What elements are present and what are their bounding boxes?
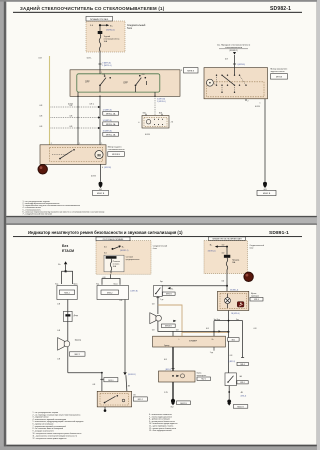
page 1 bottom dark edge bbox=[6, 216, 317, 217]
svg-text:Кор.: Кор. bbox=[96, 283, 100, 285]
svg-text:стеклоочистителя: стеклоочистителя bbox=[108, 149, 125, 151]
node B+ in ignition box bbox=[208, 244, 228, 254]
title underline bbox=[13, 236, 302, 237]
svg-text:1 (М97-В): 1 (М97-В) bbox=[130, 290, 138, 292]
switch contacts right (washer) bbox=[123, 74, 146, 92]
left dark shadow line bbox=[0, 0, 4, 450]
right grey strip bbox=[317, 0, 320, 450]
page 1 white sheet bbox=[6, 2, 317, 216]
svg-text:М970-L 2А: М970-L 2А bbox=[106, 133, 116, 136]
drop to connector dead end bbox=[228, 321, 257, 366]
svg-text:М52: М52 bbox=[232, 339, 235, 341]
switch contacts left (wiper) bbox=[85, 74, 111, 92]
svg-text:SD891-1: SD891-1 bbox=[269, 230, 289, 236]
seat belt switch box bbox=[225, 373, 248, 386]
svg-text:ПОСТОЯННОЕ ПИТАНИЕ: ПОСТОЯННОЕ ПИТАНИЕ bbox=[103, 238, 124, 241]
svg-text:Зуммер: Зуммер bbox=[164, 345, 170, 347]
ground G02 bbox=[93, 182, 109, 196]
wiper motor park switch bbox=[52, 149, 75, 159]
dashed wire row 3 bbox=[40, 126, 119, 136]
rear washer motor box bbox=[204, 68, 268, 99]
svg-text:(SD982-2): (SD982-2) bbox=[229, 50, 238, 52]
svg-text:13 - блок предохранителей: 13 - блок предохранителей bbox=[149, 429, 172, 432]
svg-text:В+: В+ bbox=[171, 288, 173, 290]
title underline bbox=[13, 12, 302, 13]
driver door switch box bbox=[97, 391, 147, 407]
svg-text:0.8: 0.8 bbox=[93, 384, 96, 386]
svg-text:12 - контрольная лампа ремня в: 12 - контрольная лампа ремня водителя bbox=[33, 438, 67, 440]
grommet (red) left bbox=[38, 165, 47, 174]
svg-text:2 (М970-L): 2 (М970-L) bbox=[157, 101, 166, 103]
node B+ in constant power box bbox=[104, 245, 129, 254]
svg-text:М97В S: М97В S bbox=[187, 70, 194, 72]
svg-text:Лампа: Лампа bbox=[197, 373, 202, 375]
switch bottom pins bbox=[68, 92, 166, 106]
wire meter to belt switch bbox=[229, 311, 240, 373]
svg-text:2: 2 bbox=[51, 143, 52, 145]
buzzer (horn symbol) bbox=[58, 338, 85, 357]
wiper motor pins bbox=[51, 143, 103, 145]
svg-text:0.8 В: 0.8 В bbox=[91, 175, 96, 177]
wire chime to buzzer rail bbox=[152, 321, 230, 336]
junction block caption right 2 bbox=[250, 244, 264, 249]
wire fuse to wiper switch bbox=[87, 52, 112, 70]
wire M33-1 to diode bbox=[57, 300, 68, 312]
wire from fusible link splits bbox=[96, 274, 120, 285]
washer pump motor bbox=[206, 79, 213, 86]
svg-text:М31-3: М31-3 bbox=[240, 364, 244, 366]
svg-text:Проз.: Проз. bbox=[73, 283, 78, 285]
chime (second horn) bbox=[150, 313, 177, 328]
junction block dashed box (ignition feed) bbox=[86, 16, 125, 52]
svg-text:ПИТАНИЕ ПРИ ЗАЖ.: ПИТАНИЕ ПРИ ЗАЖ. bbox=[90, 18, 109, 21]
svg-text:незатянутого: незатянутого bbox=[197, 375, 207, 377]
wire switch pin to wiper motor (mid) bbox=[99, 96, 101, 145]
svg-text:1 дх: 1 дх bbox=[160, 299, 163, 301]
svg-text:1 (М970S): 1 (М970S) bbox=[237, 64, 246, 66]
connector box M33-2 bbox=[97, 286, 138, 300]
svg-text:2В (М31-4): 2В (М31-4) bbox=[231, 313, 240, 315]
svg-text:OFF: OFF bbox=[123, 82, 128, 84]
svg-text:М970S В: М970S В bbox=[112, 154, 121, 156]
rail meter split bbox=[214, 319, 243, 322]
fusible link box 30A bbox=[104, 255, 139, 273]
svg-text:(SD982-2): (SD982-2) bbox=[106, 30, 115, 32]
fuse F (rear wiper 10A) bbox=[98, 26, 120, 52]
wire buzzer to door switch bbox=[57, 347, 118, 392]
constant power dashed box bbox=[96, 237, 151, 274]
svg-text:М31 4: М31 4 bbox=[254, 299, 259, 301]
svg-text:(М52-2): (М52-2) bbox=[165, 369, 171, 371]
svg-text:ЗУММЕР: ЗУММЕР bbox=[189, 341, 198, 343]
svg-text:0.8 В: 0.8 В bbox=[145, 134, 150, 136]
svg-text:0.8: 0.8 bbox=[230, 355, 233, 357]
washer ground wire bbox=[246, 99, 265, 182]
svg-text:1В (М31-4): 1В (М31-4) bbox=[230, 290, 239, 292]
svg-text:(SD891-2): (SD891-2) bbox=[128, 374, 136, 376]
svg-text:1: 1 bbox=[101, 72, 102, 74]
washer valve contacts bbox=[213, 68, 247, 93]
ground MG52 bbox=[164, 392, 190, 408]
svg-text:М33-1: М33-1 bbox=[64, 292, 69, 294]
washer motor caption bbox=[271, 69, 288, 80]
belt lamp box bbox=[159, 371, 211, 382]
svg-text:SD982-1: SD982-1 bbox=[270, 6, 291, 12]
node B+ inside junction block bbox=[90, 24, 115, 32]
svg-text:(М31-3): (М31-3) bbox=[241, 396, 247, 398]
svg-text:1.25: 1.25 bbox=[164, 392, 168, 394]
svg-text:1 дх: 1 дх bbox=[210, 352, 213, 354]
svg-text:М970-L 2А: М970-L 2А bbox=[106, 123, 116, 126]
svg-text:2: 2 bbox=[248, 100, 249, 102]
svg-text:М31-3: М31-3 bbox=[240, 382, 244, 384]
rail to key switch bbox=[156, 285, 227, 287]
wire belt switch to ground bbox=[228, 386, 246, 400]
wire switch pin to wiper motor (left) bbox=[77, 96, 79, 145]
svg-text:Проз.: Проз. bbox=[114, 283, 119, 285]
svg-text:0.8: 0.8 bbox=[152, 330, 155, 332]
yellow wire to wiper motor bbox=[39, 56, 50, 145]
combination meter box bbox=[218, 290, 249, 311]
svg-text:0.8: 0.8 bbox=[176, 330, 179, 332]
rear wiper/washer switch box bbox=[70, 70, 180, 97]
svg-text:(SD981-2): (SD981-2) bbox=[208, 251, 216, 253]
wiper relay box bbox=[138, 112, 174, 135]
connector box M33-1 bbox=[55, 283, 78, 299]
top dark strip bbox=[0, 0, 320, 2]
main ignition wire down bbox=[221, 274, 228, 292]
legend page 2 column 1 bbox=[33, 412, 84, 440]
svg-text:ЕТАСМ: ЕТАСМ bbox=[62, 249, 74, 253]
svg-text:Без: Без bbox=[62, 244, 68, 248]
seat belt icon (red) bbox=[237, 302, 244, 307]
svg-text:G52: G52 bbox=[171, 406, 174, 408]
ignition power dashed box bbox=[204, 237, 248, 274]
svg-text:Кор.: Кор. bbox=[160, 281, 164, 283]
svg-text:М15-1: М15-1 bbox=[108, 380, 113, 382]
svg-text:В18: В18 bbox=[159, 112, 162, 114]
svg-text:(М970S): (М970S) bbox=[104, 167, 111, 169]
page 2 bottom dark edge bbox=[6, 445, 317, 447]
svg-text:М15 2: М15 2 bbox=[138, 399, 143, 401]
switch connector label right bbox=[181, 68, 198, 73]
fuse 10A ignition bbox=[224, 248, 240, 274]
legend page 2 column 2 bbox=[149, 414, 177, 432]
ground wire from wiper motor bbox=[91, 164, 111, 181]
dashed wire row 1 bbox=[40, 105, 119, 115]
diode box bbox=[64, 311, 79, 321]
svg-text:М33-2: М33-2 bbox=[107, 292, 112, 294]
ground MG01 bbox=[227, 400, 248, 409]
page 2 white sheet bbox=[6, 224, 317, 445]
svg-text:В+: В+ bbox=[212, 339, 214, 341]
svg-text:ЗАДНИЙ СТЕКЛООЧИСТИТЕЛЬ СО СТЕ: ЗАДНИЙ СТЕКЛООЧИСТИТЕЛЬ СО СТЕКЛООМЫВАТЕ… bbox=[20, 6, 165, 11]
svg-text:Соединительный: Соединительный bbox=[127, 24, 146, 27]
svg-text:1 (М970-L): 1 (М970-L) bbox=[102, 65, 112, 67]
see front washers reference bbox=[217, 45, 251, 55]
svg-text:МG52 В: МG52 В bbox=[180, 403, 187, 405]
svg-text:4: 4 bbox=[102, 167, 103, 169]
svg-text:(SD981-1): (SD981-1) bbox=[120, 250, 129, 252]
svg-text:М970 В: М970 В bbox=[166, 294, 172, 296]
svg-text:блок: блок bbox=[153, 248, 157, 250]
timer output thick wire bbox=[164, 347, 232, 399]
variant label: without ETACM bbox=[62, 244, 74, 253]
wiper motor caption bbox=[108, 147, 125, 157]
svg-text:1: 1 bbox=[260, 103, 261, 105]
key reminder switch bbox=[154, 281, 176, 296]
svg-text:7 - соединительный блок питани: 7 - соединительный блок питания bbox=[23, 213, 53, 216]
svg-text:Кор.: Кор. bbox=[55, 283, 59, 285]
svg-text:М971S: М971S bbox=[276, 77, 283, 79]
rear wiper motor box bbox=[40, 145, 106, 165]
svg-text:5 (М31-3): 5 (М31-3) bbox=[228, 361, 235, 363]
door switch ground stub bbox=[104, 407, 107, 412]
svg-text:МG01 В: МG01 В bbox=[237, 406, 244, 408]
tan wire path bbox=[158, 305, 229, 336]
timer (buzzer) box bbox=[153, 336, 240, 347]
legend page 1 bbox=[23, 201, 105, 216]
wire diode to buzzer bbox=[57, 322, 68, 341]
wire to washer motor bbox=[225, 55, 245, 68]
svg-text:0.8 L: 0.8 L bbox=[87, 57, 93, 59]
wire switch pin to relay (dashed) bbox=[154, 96, 156, 115]
svg-text:1: 1 bbox=[79, 143, 80, 145]
svg-text:МG03 В: МG03 В bbox=[263, 193, 271, 195]
svg-text:0.8: 0.8 bbox=[152, 303, 155, 305]
wiper motor M bbox=[95, 151, 103, 159]
svg-text:0.8 В: 0.8 В bbox=[255, 106, 260, 108]
junction block caption right bbox=[153, 245, 167, 250]
page 2 top dark edge bbox=[6, 224, 317, 225]
dashed wire row 2 bbox=[40, 116, 119, 126]
svg-text:предохранитель: предохранитель bbox=[126, 259, 140, 261]
svg-text:М970-L 2А: М970-L 2А bbox=[106, 112, 116, 115]
ground G03 bbox=[257, 182, 276, 196]
junction block caption bbox=[127, 24, 146, 30]
svg-text:приборов: приборов bbox=[251, 295, 259, 297]
wire M33-2 to door switch bbox=[120, 300, 137, 392]
svg-text:Зел./Чер.: Зел./Чер. bbox=[214, 319, 221, 321]
svg-text:М970S В: М970S В bbox=[165, 326, 172, 328]
svg-text:В16: В16 bbox=[143, 112, 146, 114]
B+ feed arrow without ETACM bbox=[58, 261, 72, 284]
svg-text:1: 1 bbox=[101, 143, 102, 145]
drop to timer box bbox=[206, 321, 214, 337]
svg-text:Зуммер: Зуммер bbox=[75, 340, 81, 342]
grommet (red) right bbox=[244, 272, 253, 281]
svg-text:М62 2: М62 2 bbox=[75, 354, 80, 356]
switch pin 1 top bbox=[100, 70, 102, 74]
svg-text:М52 2: М52 2 bbox=[201, 379, 206, 381]
svg-text:OFF: OFF bbox=[85, 82, 90, 84]
wire key switch to chime bbox=[152, 296, 164, 314]
meter caption bbox=[250, 293, 263, 301]
svg-text:МG02 В: МG02 В bbox=[97, 193, 105, 195]
svg-text:блок: блок bbox=[250, 248, 254, 250]
svg-text:Индикатор незатянутого ремня б: Индикатор незатянутого ремня безопасност… bbox=[28, 230, 183, 235]
svg-text:заднего стекла: заднего стекла bbox=[271, 71, 286, 73]
meter warning lamp bbox=[225, 294, 231, 308]
